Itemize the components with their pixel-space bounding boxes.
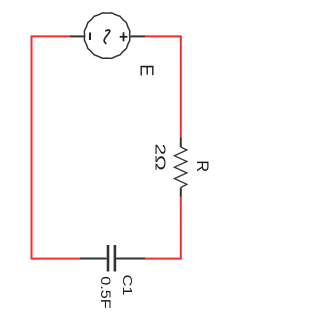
svg-text:0.5F: 0.5F [98,276,113,309]
svg-text:2Ω: 2Ω [152,144,169,171]
svg-text:C1: C1 [120,275,135,296]
svg-text:R: R [193,160,211,172]
svg-text:E: E [137,64,157,76]
